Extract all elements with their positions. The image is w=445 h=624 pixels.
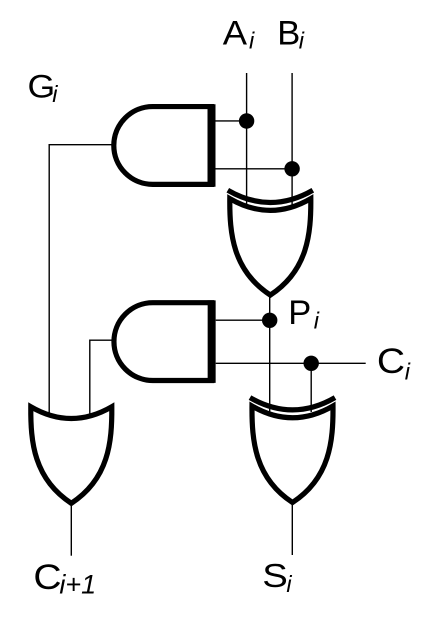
svg-text:i+1: i+1	[59, 570, 96, 600]
svg-text:G: G	[28, 69, 56, 105]
wire AND1 input stub bottom	[216, 168, 293, 170]
svg-text:i: i	[286, 571, 292, 597]
svg-text:B: B	[277, 15, 300, 53]
junction dot C	[304, 356, 319, 371]
wire G output	[49, 145, 114, 414]
svg-text:A: A	[223, 15, 247, 53]
wire OR output	[70, 502, 72, 556]
svg-text:i: i	[405, 358, 411, 384]
svg-text:C: C	[377, 342, 405, 381]
wire C_i horizontal	[216, 362, 366, 364]
wire XOR2 output	[291, 502, 293, 555]
and-gate U1 (G)	[114, 104, 212, 187]
xor U3 (P)	[228, 190, 313, 295]
wire P vertical	[269, 295, 271, 413]
wire AND2 input stub top	[216, 319, 270, 321]
wire B_i vertical	[291, 73, 293, 208]
xor U4 (S)	[250, 398, 335, 503]
wire C branch vertical	[310, 363, 312, 412]
svg-text:C: C	[33, 558, 61, 597]
svg-text:i: i	[249, 28, 255, 54]
and-gate U2	[114, 300, 212, 383]
svg-text:i: i	[314, 308, 320, 334]
svg-text:i: i	[299, 28, 305, 54]
junction dot P	[262, 313, 277, 328]
svg-text:S: S	[262, 558, 288, 595]
junction dot A	[239, 113, 254, 128]
wire AND2 output	[90, 340, 114, 414]
svg-text:i: i	[52, 81, 58, 107]
junction dot B	[284, 161, 299, 176]
wire A_i vertical	[246, 73, 248, 208]
svg-text:P: P	[288, 294, 311, 332]
wire AND1 input stub top	[216, 120, 247, 122]
or U5 (C)	[31, 407, 112, 504]
